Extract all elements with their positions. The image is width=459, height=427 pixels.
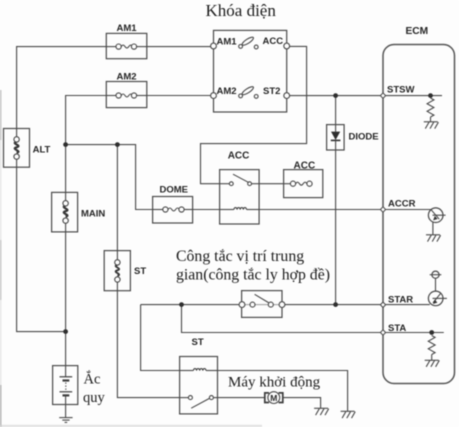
svg-text:ST: ST: [134, 266, 146, 277]
relay ACC (switch + coil): [220, 151, 260, 224]
ground: chassis under R-STA: [425, 360, 440, 367]
ECM box: [383, 26, 455, 384]
neutral position switch (clutch start switch): [239, 291, 285, 318]
svg-text:DIODE: DIODE: [349, 132, 379, 143]
transistor Q-STAR (ECM internal driver): [428, 291, 446, 306]
relay ST switch: [180, 397, 188, 399]
node: junction STAR line / diode branch: [333, 302, 338, 307]
svg-text:DOME: DOME: [160, 185, 189, 196]
ground: chassis at motor: [314, 408, 329, 415]
scan artifact: bottom smear: [0, 425, 262, 427]
svg-text:AM1: AM1: [117, 23, 138, 34]
fuse AM2: [106, 71, 147, 107]
battery (Ac quy): [53, 366, 106, 406]
node: crossed-circle collector terminal above Q-STAR: [430, 271, 442, 291]
svg-text:M: M: [270, 393, 277, 403]
svg-text:ST: ST: [192, 337, 204, 348]
svg-text:ST2: ST2: [263, 86, 280, 97]
ignition key switch block (Khoa dien): [211, 30, 290, 112]
transistor Q-ACCR (ECM internal driver): [428, 208, 445, 235]
pin STSW: [380, 85, 414, 99]
svg-text:Máy khởi động: Máy khởi động: [228, 375, 321, 391]
wire: STA sense line from STAR junction to ECM STA: [182, 305, 384, 333]
node: junction STAR line / STA drop: [179, 302, 184, 307]
ground: chassis under Q-ACCR: [426, 235, 441, 242]
wire: MAIN riser branch at y=145 to DOME / ACC relay coil / ECM ACCR: [66, 145, 383, 210]
svg-text:ACC: ACC: [228, 151, 250, 162]
svg-text:STSW: STSW: [387, 85, 414, 96]
terminal ST2 right: [284, 93, 290, 99]
node: junction ALT loop / battery riser: [63, 329, 68, 334]
ground: chassis at ST relay coil: [341, 411, 356, 418]
svg-text:Công tắc vị trí trung: Công tắc vị trí trung: [176, 248, 304, 265]
terminal left: [239, 302, 245, 308]
pin STA: [380, 323, 406, 335]
svg-text:ACCR: ACCR: [388, 199, 416, 210]
fuse AM1: [106, 23, 147, 59]
terminal right: [279, 302, 285, 308]
svg-text:ACC: ACC: [263, 36, 284, 47]
node: junction STA internal / resistor: [429, 330, 434, 335]
svg-text:quy: quy: [83, 390, 106, 406]
fuse ST: [104, 251, 146, 291]
switch contacts AM1-ACC: [241, 36, 254, 47]
resistor R-STSW (ECM internal pull-down): [427, 98, 434, 122]
scan artifact: left edge: [0, 90, 2, 140]
ground: earth under battery: [59, 418, 72, 423]
wire: motor to chassis ground: [283, 398, 321, 409]
fuse DOME: [153, 185, 193, 224]
svg-text:AM1: AM1: [217, 36, 238, 47]
svg-text:AM2: AM2: [117, 71, 137, 82]
svg-text:ECM: ECM: [406, 26, 429, 37]
relay ST coil: [180, 370, 193, 372]
wire: starter relay output to motor: [213, 397, 265, 399]
wire: battery negative to earth ground: [65, 405, 67, 418]
node: junction STSW internal / resistor: [428, 93, 433, 98]
resistor R-STA (ECM internal pull-down): [428, 336, 435, 361]
switch contacts AM2-ST2: [241, 85, 254, 96]
svg-text:Ắc: Ắc: [84, 371, 101, 388]
motor M (starter motor): [265, 392, 283, 404]
wire: ACC relay switch output to ACC fuse: [252, 183, 292, 185]
wire: diode branch from STSW line down to STAR line: [335, 96, 337, 305]
diode D1: [327, 125, 379, 150]
wire: STA internal stub: [383, 332, 444, 334]
wire: ACCR line into transistor: [383, 209, 431, 211]
pin STAR: [380, 295, 413, 308]
svg-text:ACC: ACC: [294, 161, 316, 172]
svg-text:Khóa điện: Khóa điện: [206, 1, 277, 20]
svg-text:AM2: AM2: [217, 86, 237, 97]
terminal ACC right: [284, 43, 290, 49]
svg-text:gian(công tắc ly hợp đề): gian(công tắc ly hợp đề): [176, 267, 330, 284]
wire: key switch ST2 output to ECM STSW: [287, 95, 383, 97]
wire: STAR line from corner through neutral switch to ECM STAR: [141, 304, 430, 306]
wire: relay coil feed from STAR line left corner down: [141, 305, 348, 412]
svg-text:ALT: ALT: [33, 145, 51, 156]
relay ST (starter relay: coil + switch): [180, 337, 218, 414]
svg-text:MAIN: MAIN: [81, 209, 105, 220]
fusible link MAIN: [52, 192, 106, 232]
svg-text:STAR: STAR: [388, 295, 413, 306]
node: junction branch / ST fuse drop: [115, 142, 120, 147]
terminal AM1 left: [211, 43, 217, 49]
node: junction STSW line / diode branch: [333, 93, 338, 98]
relay ACC switch: [220, 183, 230, 185]
fusible link ALT: [4, 129, 51, 168]
wire: ST fuse branch down to starter relay contact: [117, 145, 188, 398]
wire: battery/ALT riser to AM1 fuse feed (left loop): [17, 47, 212, 332]
wire: battery positive riser through MAIN to AM2 fuse: [66, 96, 212, 367]
wire: key switch ACC output loop down to ACC relay switch: [201, 46, 307, 183]
fuse ACC: [284, 161, 323, 198]
pin ACCR: [380, 199, 415, 213]
svg-text:STA: STA: [388, 323, 406, 334]
node: junction MAIN riser / branch: [63, 142, 68, 147]
ground: chassis under R-STSW: [424, 122, 439, 129]
relay ACC coil: [220, 209, 234, 211]
terminal AM2 left: [211, 93, 217, 99]
wire: STSW internal stub with pull-down: [383, 95, 442, 97]
